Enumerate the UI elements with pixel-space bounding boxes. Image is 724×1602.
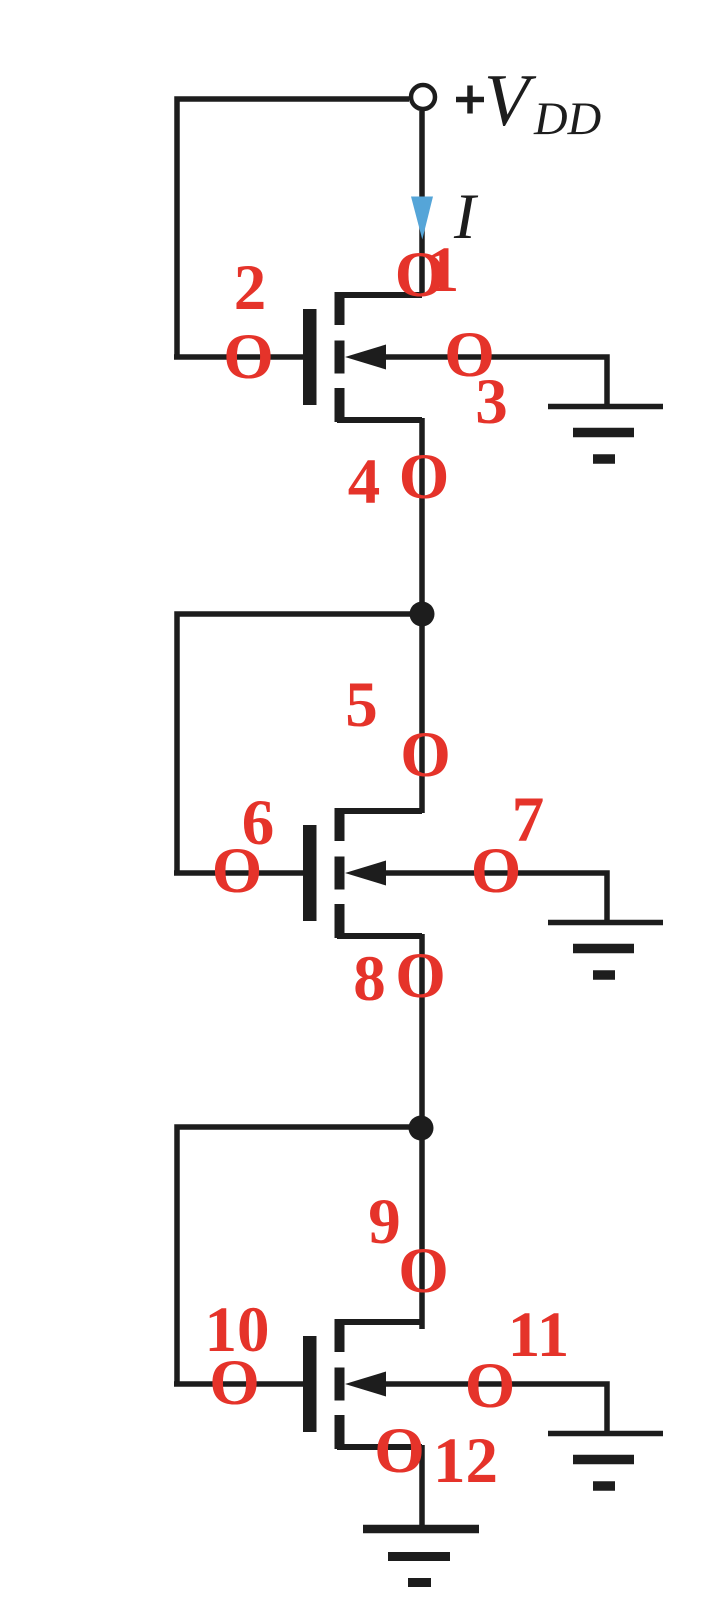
svg-text:DD: DD	[533, 94, 601, 145]
ground G2 (Q2 body)	[548, 923, 663, 976]
wire: Q2 source down to junction B and Q3 drain	[419, 934, 425, 1329]
node markers	[205, 234, 570, 1497]
svg-text:O: O	[223, 321, 274, 393]
Q3 channel drain segment	[335, 1319, 345, 1352]
wire: junction B to Q3 gate feedback	[177, 1127, 421, 1384]
Q1 source lead	[337, 417, 422, 423]
wire: Q2 gate lead	[174, 870, 303, 876]
Q1 drain lead	[337, 292, 422, 298]
junction B dot	[409, 1116, 434, 1141]
svg-text:1: 1	[427, 234, 460, 306]
Q2 gate bar	[303, 825, 317, 921]
Q2 source lead	[337, 933, 422, 939]
transistor Q3	[303, 1319, 607, 1449]
Q1 channel body segment	[335, 341, 345, 374]
Q3 body arrow	[345, 1372, 386, 1397]
svg-text:11: 11	[508, 1299, 569, 1371]
svg-text:O: O	[374, 1415, 425, 1487]
ground G1 (Q1 body)	[548, 407, 663, 460]
svg-text:4: 4	[348, 446, 381, 518]
svg-text:8: 8	[353, 943, 386, 1015]
terminal +VDD	[411, 85, 435, 109]
svg-text:12: 12	[433, 1425, 498, 1497]
Q1 channel source segment	[335, 388, 345, 422]
Q3 body wire to ground	[383, 1384, 607, 1432]
wire: Q1 gate lead	[174, 354, 303, 360]
Q1 gate bar	[303, 309, 317, 405]
wire: VDD drain wire down to Q1 drain	[419, 111, 425, 295]
wire: junction A to Q2 gate feedback	[177, 614, 422, 873]
Q2 drain lead	[337, 808, 422, 814]
Q1 channel drain segment	[335, 292, 345, 325]
Q3 gate bar	[303, 1336, 317, 1432]
Q1 body wire to ground	[383, 357, 607, 405]
svg-text:7: 7	[512, 784, 545, 856]
svg-text:2: 2	[234, 252, 267, 324]
Q2 body wire to ground	[383, 873, 607, 921]
Q3 channel body segment	[335, 1368, 345, 1401]
svg-text:10: 10	[205, 1294, 270, 1366]
Q1 body arrow	[345, 345, 386, 370]
svg-text:3: 3	[475, 366, 508, 438]
svg-text:O: O	[399, 441, 450, 513]
Q2 body arrow	[345, 861, 386, 886]
wire: top feedback wire (VDD to Q1 gate)	[177, 99, 409, 357]
svg-text:V: V	[484, 60, 537, 142]
wire: Q3 gate lead	[174, 1381, 303, 1387]
Q3 channel source segment	[335, 1415, 345, 1449]
svg-text:9: 9	[368, 1186, 401, 1258]
transistor Q2	[303, 808, 607, 938]
ground G4 (source of Q3)	[363, 1529, 479, 1583]
svg-text:O: O	[400, 719, 451, 791]
wire: Q3 source down to ground	[419, 1445, 425, 1529]
Q3 drain lead	[337, 1319, 422, 1325]
ground G3 (Q3 body)	[548, 1434, 663, 1487]
transistor Q1	[303, 292, 607, 422]
Q2 channel source segment	[335, 904, 345, 938]
Q2 channel body segment	[335, 857, 345, 890]
svg-text:O: O	[398, 1235, 449, 1307]
current arrow I	[411, 197, 433, 240]
svg-text:6: 6	[242, 787, 275, 859]
wire: Q1 source down to junction A and Q2 drain	[419, 418, 425, 813]
label +VDD	[0, 0, 1, 1]
svg-text:O: O	[395, 940, 446, 1012]
svg-text:5: 5	[345, 669, 378, 741]
Q3 source lead	[337, 1444, 422, 1450]
junction A dot	[410, 602, 435, 627]
Q2 channel drain segment	[335, 808, 345, 841]
